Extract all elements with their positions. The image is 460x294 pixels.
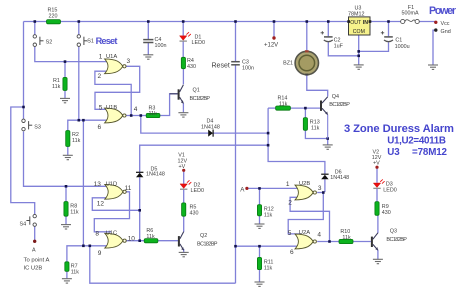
svg-text:220: 220 — [49, 14, 58, 20]
svg-text:Reset: Reset — [212, 63, 230, 70]
svg-text:11k: 11k — [70, 210, 79, 216]
svg-text:500mA: 500mA — [402, 10, 419, 16]
junction pin9 bottom rail — [89, 245, 92, 248]
wire V2 to D3 — [376, 169, 378, 183]
gate U2A — [295, 234, 316, 249]
transistor Q3 — [371, 233, 378, 251]
svg-text:LED0: LED0 — [192, 40, 206, 46]
svg-text:78M12: 78M12 — [348, 11, 364, 17]
resistor R14 — [276, 106, 291, 110]
svg-text:U3: U3 — [387, 147, 400, 158]
svg-text:11k: 11k — [72, 138, 81, 144]
wire branch to S4 — [11, 107, 35, 214]
svg-text:2: 2 — [98, 73, 102, 80]
resistor R10 — [339, 239, 353, 243]
diode D6 — [321, 174, 328, 179]
svg-text:11k: 11k — [146, 234, 155, 240]
wire U1B output line — [125, 115, 146, 117]
junction D5 line pin12 — [138, 209, 141, 212]
svg-text:11k: 11k — [52, 84, 61, 90]
svg-text:4: 4 — [134, 106, 138, 113]
svg-text:1N4148: 1N4148 — [330, 175, 349, 181]
svg-text:U1A: U1A — [106, 54, 117, 60]
resistor R3 — [146, 113, 160, 117]
svg-text:10: 10 — [128, 235, 136, 242]
junction pin9 line branch — [82, 245, 85, 248]
svg-text:Gnd: Gnd — [441, 29, 451, 35]
svg-text:6: 6 — [98, 124, 102, 131]
junction COM C2 — [357, 55, 360, 58]
svg-text:1: 1 — [286, 181, 290, 188]
wire R13 stub — [304, 108, 306, 118]
switch S3 — [22, 119, 32, 131]
svg-text:11k: 11k — [279, 101, 288, 107]
resistor R13 — [303, 118, 307, 131]
resistor R5 — [182, 203, 186, 216]
svg-text:6: 6 — [290, 249, 294, 256]
svg-text:12: 12 — [97, 201, 105, 208]
junction C1 rail — [387, 20, 390, 23]
terminal Gnd — [434, 28, 437, 31]
svg-text:Q4: Q4 — [332, 94, 339, 100]
junction C2 rail — [327, 20, 330, 23]
svg-text:5: 5 — [99, 104, 103, 111]
svg-text:1N4148: 1N4148 — [146, 171, 165, 177]
junction C3 rail — [234, 20, 237, 23]
svg-text:11k: 11k — [311, 126, 320, 132]
junction left rail S4 branch — [22, 106, 25, 109]
wire U2A out to U2B in2 — [290, 197, 329, 241]
wire +12V stub — [273, 22, 275, 37]
wire R1 stub — [64, 62, 66, 78]
svg-text:Q1: Q1 — [193, 88, 200, 94]
wire U1D pin12 loop — [92, 198, 139, 211]
wire R11 stub — [259, 246, 261, 257]
wire U1A out to U1B in5 — [95, 66, 140, 109]
wire C4 stub — [147, 22, 149, 40]
svg-text:S2: S2 — [46, 39, 53, 45]
svg-text:Power: Power — [429, 5, 456, 17]
wire R10 to Q3 base — [353, 241, 371, 243]
wire R12 stub — [259, 188, 261, 204]
svg-text:A: A — [32, 247, 36, 253]
wire R11 to ground — [259, 270, 261, 282]
svg-text:11k: 11k — [149, 111, 158, 117]
wire D5 vertical lower — [139, 177, 141, 240]
LED D1 — [180, 32, 191, 41]
wire R14 to Q4 base — [290, 107, 320, 109]
ground Q3 — [373, 259, 383, 263]
svg-text:1: 1 — [99, 53, 103, 60]
wire BZ1 top stub — [306, 22, 308, 52]
gate U1A — [105, 59, 126, 74]
svg-text:3: 3 — [318, 185, 322, 192]
svg-text:430: 430 — [382, 210, 391, 216]
wire S1 bottom down to pin6 line — [78, 47, 80, 121]
terminal point A — [33, 240, 36, 243]
junction S1 top rail — [78, 20, 81, 23]
switch S4 — [26, 214, 36, 226]
ground R1 — [60, 98, 70, 102]
svg-text:1000u: 1000u — [395, 44, 410, 50]
svg-text:U2A: U2A — [299, 230, 310, 236]
wire BZ1 to Q4 collector — [307, 75, 328, 97]
ground R7 — [62, 279, 72, 283]
ground R2 — [63, 155, 73, 159]
terminal Vcc — [434, 21, 437, 24]
ground R11 — [255, 282, 265, 286]
wire U1B out to U1A in2 — [95, 71, 131, 115]
svg-text:U2B: U2B — [299, 181, 310, 187]
wire C1 to COM — [359, 42, 389, 51]
junction U2B out node — [322, 191, 325, 194]
svg-text:IC U2B: IC U2B — [24, 266, 43, 272]
wire R8 stub — [65, 186, 67, 201]
svg-text:430: 430 — [187, 64, 196, 70]
wire C4 to ground — [147, 43, 149, 55]
wire fuse to Vcc — [419, 21, 435, 23]
junction C4 rail — [147, 20, 150, 23]
svg-text:To point A: To point A — [24, 258, 50, 264]
wire Q2 emitter stub — [183, 249, 185, 252]
LED D3 — [373, 179, 384, 188]
svg-text:430: 430 — [190, 211, 199, 217]
regulator U3 — [347, 17, 371, 35]
junction BZ1 rail — [306, 20, 309, 23]
resistor R2 — [66, 131, 70, 147]
svg-text:COM: COM — [353, 29, 365, 35]
svg-text:=78M12: =78M12 — [412, 147, 448, 158]
gate U1B — [105, 108, 126, 123]
resistor R15 — [47, 20, 61, 24]
svg-text:8: 8 — [95, 230, 99, 237]
wire U2A output line — [317, 241, 339, 243]
wire U1B pin6 line from R2 — [68, 120, 111, 130]
wire D2 to R5 — [183, 190, 185, 203]
svg-text:Q3: Q3 — [390, 229, 397, 235]
node V1 marker — [182, 169, 185, 172]
wire S1 top stub — [78, 22, 80, 35]
svg-text:IN: IN — [363, 20, 368, 26]
wire U2B out stub — [317, 192, 323, 194]
svg-text:11k: 11k — [264, 213, 273, 219]
node A marker — [245, 187, 248, 190]
wire D1 to R4 — [182, 42, 184, 58]
junction D5 line R6 — [138, 239, 141, 242]
wire R14 line from alarm vertical — [268, 107, 276, 109]
wire top supply rail — [24, 21, 349, 23]
resistor R12 — [257, 205, 261, 216]
wire C2 to COM — [328, 42, 358, 56]
svg-text:LED0: LED0 — [383, 187, 397, 193]
resistor R4 — [181, 57, 185, 68]
gate U1D — [105, 184, 126, 199]
junction U1B out feedback — [130, 114, 133, 117]
svg-text:11k: 11k — [71, 270, 80, 276]
junction R8 node — [65, 185, 68, 188]
svg-text:11k: 11k — [264, 265, 273, 271]
junction COM C1 — [357, 50, 360, 53]
svg-text:S1: S1 — [87, 38, 94, 44]
resistor R7 — [65, 262, 69, 272]
ground C4 — [143, 55, 153, 59]
wire U1D out to U1C in8 — [94, 192, 129, 232]
LED D2 — [180, 180, 191, 189]
junction C3 pin6 line — [234, 245, 237, 248]
wire R5 to Q2 collector — [183, 216, 185, 232]
capacitor C3 — [231, 62, 240, 65]
wire Gnd terminal down — [433, 30, 435, 65]
svg-text:U1,U2=4011B: U1,U2=4011B — [387, 136, 446, 147]
wire V1 to D2 — [183, 172, 185, 184]
svg-text:BC182BP: BC182BP — [386, 237, 407, 243]
svg-text:BC182BP: BC182BP — [197, 241, 218, 247]
ground Q2 — [179, 252, 189, 256]
buzzer BZ1 — [295, 50, 318, 75]
wire R7 to ground — [66, 271, 68, 278]
wire Q4 emitter ground stub — [327, 139, 329, 145]
gate U1C — [105, 233, 126, 248]
svg-text:9: 9 — [98, 250, 102, 257]
diode D4 — [208, 130, 213, 137]
svg-text:OUT: OUT — [350, 20, 362, 26]
svg-text:100n: 100n — [155, 43, 167, 49]
svg-text:LED0: LED0 — [191, 188, 205, 194]
wire R2 to ground — [67, 147, 69, 156]
svg-text:U1D: U1D — [106, 181, 118, 187]
junction U1B out D4 branch — [140, 114, 143, 117]
junction Q4 emitter node — [326, 137, 329, 140]
svg-text:4: 4 — [317, 231, 321, 238]
node +12V marker — [272, 36, 275, 39]
svg-text:Vcc: Vcc — [441, 21, 450, 27]
wire S4 to point A terminal — [34, 225, 36, 241]
resistor R8 — [64, 202, 68, 217]
junction D5 alarm node — [267, 144, 270, 147]
wire S2 bottom to U1A pin1 line — [35, 47, 111, 62]
wire D1 stub from rail — [182, 22, 184, 36]
ground power Gnd — [428, 65, 438, 69]
transistor Q2 — [178, 232, 184, 251]
wire alarm vertical — [268, 108, 325, 174]
wire Q1 emitter to ground — [182, 103, 184, 112]
junction D1 rail — [182, 20, 185, 23]
wire S2 top stub — [34, 22, 36, 35]
wire A line to U2B pin1 — [248, 187, 301, 189]
capacitor C1 — [381, 31, 393, 42]
svg-text:11k: 11k — [342, 235, 351, 241]
resistor R6 — [144, 239, 158, 243]
svg-text:C1: C1 — [395, 38, 402, 44]
switch S1 — [77, 35, 87, 47]
wire D3 to R9 — [376, 189, 378, 202]
svg-text:BC182BP: BC182BP — [329, 102, 350, 108]
resistor R9 — [375, 202, 379, 216]
wire bottom rail — [90, 246, 236, 283]
wire C3 stub from rail — [235, 22, 237, 62]
wire D5 line — [140, 145, 268, 172]
junction R1 node — [64, 60, 67, 63]
junction R13 node — [304, 107, 307, 110]
wire Q3 emitter to ground — [377, 250, 379, 259]
wire left rail down to S3 — [23, 22, 25, 120]
junction D4 alarm node — [267, 132, 270, 135]
wire R9 to Q3 collector — [377, 215, 379, 233]
wire D4 to alarm node — [213, 132, 268, 134]
svg-text:+12V: +12V — [264, 43, 278, 49]
svg-text:BC182BP: BC182BP — [190, 96, 211, 102]
junction R11 node — [258, 245, 261, 248]
node V2 marker — [375, 166, 378, 169]
ground Q4 — [323, 145, 333, 149]
fuse F1 — [401, 19, 420, 23]
capacitor C4 — [143, 40, 153, 43]
svg-text:1uF: 1uF — [334, 43, 344, 49]
wire S3 bottom to U1D pin13 line — [24, 131, 112, 186]
wire R1 to ground — [64, 91, 66, 99]
svg-text:3 Zone Duress Alarm: 3 Zone Duress Alarm — [344, 123, 454, 135]
wire R6 to Q2 base — [158, 240, 178, 242]
wire rail U3 to fuse — [371, 21, 401, 23]
capacitor C2 — [321, 31, 333, 42]
junction pin6 line branch — [82, 119, 85, 122]
wire U2B out to U2A in5 — [288, 193, 323, 234]
transistor Q4 — [320, 97, 328, 139]
transistor Q1 — [170, 85, 184, 104]
switch S2 — [33, 35, 43, 47]
wire R12 to ground — [259, 216, 261, 224]
svg-text:+V: +V — [179, 164, 186, 170]
wire C2 stub — [327, 22, 329, 37]
junction U2A out node — [328, 240, 331, 243]
wire R8 to ground — [65, 216, 67, 224]
svg-text:11: 11 — [125, 185, 132, 192]
junction 12V rail — [273, 20, 276, 23]
wire U3 COM down — [358, 35, 360, 65]
wire U2A pin6 line — [236, 245, 302, 247]
wire D4 branch down — [141, 116, 208, 134]
wire R4 to Q1 collector — [182, 69, 184, 85]
junction S2 top rail — [34, 20, 37, 23]
wire C3 long vertical to bottom — [235, 65, 237, 283]
ground U3 COM — [354, 65, 364, 69]
svg-text:2: 2 — [288, 199, 292, 206]
svg-text:1N4148: 1N4148 — [201, 124, 220, 130]
junction S1 pin6 line — [78, 119, 81, 122]
junction R12 node — [258, 187, 261, 190]
svg-text:5: 5 — [288, 230, 292, 237]
resistor R11 — [257, 257, 261, 269]
svg-text:S3: S3 — [34, 125, 41, 131]
svg-text:BZ1: BZ1 — [283, 61, 293, 67]
svg-text:13: 13 — [94, 181, 102, 188]
diode D5 — [136, 172, 143, 177]
ground R8 — [61, 225, 71, 229]
svg-text:3: 3 — [127, 58, 131, 65]
svg-text:S4: S4 — [20, 222, 27, 228]
svg-text:100n: 100n — [242, 66, 254, 72]
wire U1C output line — [125, 240, 144, 242]
gate U2B — [295, 185, 316, 200]
wire R13 to emitter line — [305, 130, 327, 138]
wire D6 to U2B out node — [324, 179, 326, 192]
svg-text:Reset: Reset — [96, 36, 118, 46]
wire pin6-line branch down to pin9 line — [82, 120, 84, 246]
wire U1C pin9 line — [67, 246, 111, 262]
svg-text:U1B: U1B — [106, 105, 117, 111]
ground R12 — [255, 224, 265, 228]
svg-text:+V: +V — [373, 161, 380, 167]
wire C1 stub — [388, 22, 390, 37]
wire R3 to Q1 base — [160, 94, 178, 116]
svg-text:Q2: Q2 — [200, 233, 207, 239]
svg-text:U1C: U1C — [106, 231, 118, 237]
ground Q1 — [178, 113, 188, 117]
resistor R1 — [63, 77, 67, 90]
